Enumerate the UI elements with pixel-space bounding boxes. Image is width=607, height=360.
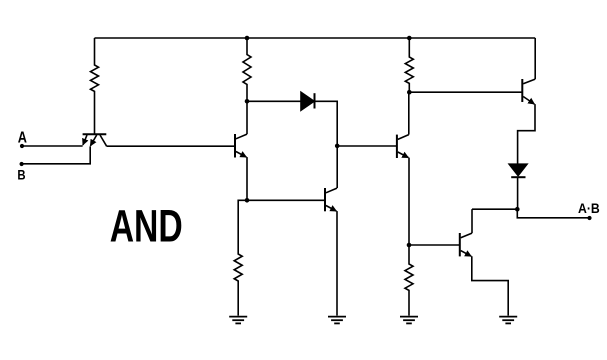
svg-text:B: B: [17, 166, 25, 182]
node rail-R2: [245, 36, 250, 41]
resistor R5: [405, 245, 413, 316]
wire Q6 collector up: [471, 209, 473, 233]
node D2-Q6-out: [515, 207, 520, 212]
wire VCC top rail: [95, 37, 536, 39]
wire node to Q5 base: [409, 91, 522, 93]
transistor Q5: [522, 79, 535, 104]
wire D2 to output node: [517, 177, 519, 209]
resistor R1: [91, 38, 99, 134]
wire Q5 emitter to D2: [518, 104, 535, 164]
wire input A: [22, 145, 83, 147]
wire Q4 collector up: [408, 92, 410, 134]
wire node to Q3 base: [247, 199, 325, 201]
wire node to output terminal: [517, 209, 589, 218]
wire node to diode D1: [247, 100, 301, 102]
wire Q1 collector to Q2 base: [107, 145, 235, 147]
wire input B: [22, 146, 91, 163]
node Q4e-R5-Q6: [407, 243, 412, 248]
terminal output: [587, 216, 591, 220]
svg-text:A: A: [18, 129, 27, 146]
node D1-Q3-Q4: [335, 144, 340, 149]
node rail-R4: [407, 36, 412, 41]
wire Q3 emitter to ground: [336, 211, 338, 316]
transistor Q3: [325, 188, 337, 211]
ground G4: [499, 317, 517, 324]
wire node to Q6 collector: [472, 208, 517, 210]
svg-text:A·B: A·B: [578, 201, 600, 216]
wire Q6 emitter to ground: [472, 256, 508, 315]
wire Q4 emitter down: [408, 158, 410, 245]
wire node to Q4 base: [337, 145, 397, 147]
node Q2e-R3-Q3: [245, 198, 250, 203]
resistor R2: [243, 38, 251, 101]
diode D1: [301, 92, 315, 110]
node R4-Q4-Q5: [407, 90, 412, 95]
resistor R3: [234, 200, 247, 315]
wire node to Q6 base: [409, 244, 460, 246]
ground G1: [229, 317, 247, 324]
wire rail corner to Q5 collector: [534, 38, 536, 79]
transistor Q4: [397, 135, 409, 158]
terminal B: [20, 162, 24, 166]
terminal A: [20, 144, 24, 148]
transistor Q6: [460, 233, 472, 256]
ground G2: [328, 317, 346, 324]
node R2-D1-Q2: [245, 99, 250, 104]
resistor R4: [405, 38, 413, 92]
wire D1 cathode to vertical: [315, 101, 338, 188]
transistor Q2: [235, 134, 247, 158]
ground G3: [400, 317, 418, 324]
diode D2: [509, 164, 527, 177]
svg-text:AND: AND: [110, 201, 183, 252]
transistor Q1 (multi-emitter input): [83, 134, 107, 146]
wire Q2 emitter down: [246, 157, 248, 200]
wire Q2 collector up: [246, 101, 248, 134]
